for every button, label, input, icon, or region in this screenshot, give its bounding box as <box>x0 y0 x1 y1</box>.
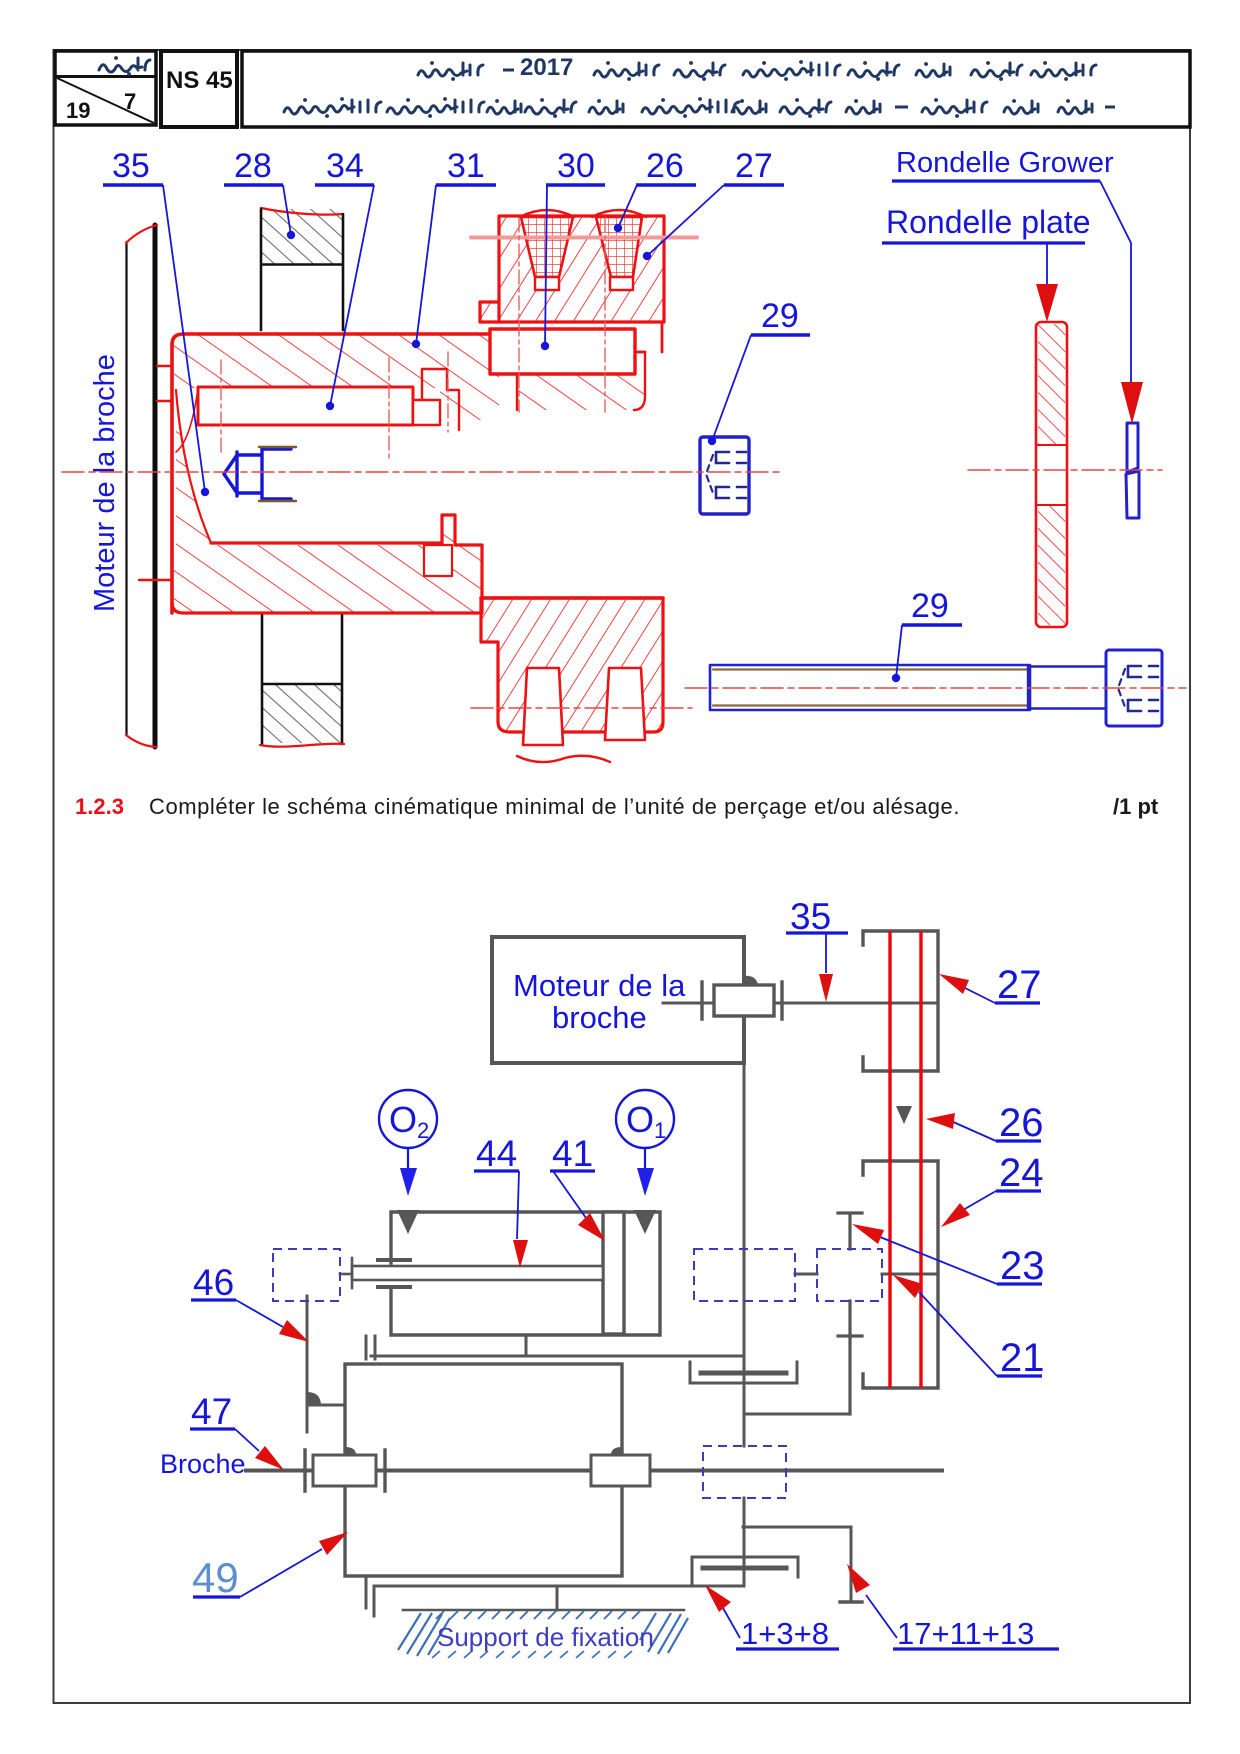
rondelle plate washer (red) <box>1036 322 1067 627</box>
svg-text:34: 34 <box>326 147 364 185</box>
svg-text:Moteur de la broche: Moteur de la broche <box>89 354 121 612</box>
pulley V-groove left (30 zone) <box>521 217 573 290</box>
label 24 schema <box>941 1151 1044 1227</box>
svg-text:1+3+8: 1+3+8 <box>741 1616 829 1651</box>
label 28 <box>224 147 295 239</box>
motor box <box>492 937 744 1063</box>
svg-text:31: 31 <box>447 147 485 185</box>
label 35 <box>103 147 209 496</box>
O2 circle <box>379 1090 437 1196</box>
label 30 <box>541 147 605 350</box>
ground support hatch <box>398 1611 688 1658</box>
svg-text:41: 41 <box>552 1133 593 1174</box>
connector between gear boxes <box>795 1273 817 1276</box>
svg-text:49: 49 <box>192 1554 239 1601</box>
part 28 belt lower section <box>260 615 344 747</box>
label 17+11+13 <box>847 1564 1059 1651</box>
belt lines (red) <box>890 931 921 1388</box>
svg-text:35: 35 <box>112 147 150 185</box>
label 46 <box>191 1262 309 1342</box>
page box (الصفحة) <box>55 51 156 125</box>
clutch fork upper <box>690 1362 797 1383</box>
question line 1.2.3 <box>75 794 124 820</box>
housing bell interior wall <box>176 388 211 545</box>
centerline main axis <box>62 471 780 473</box>
piston rod <box>340 1258 603 1288</box>
centerline washers <box>968 469 1162 471</box>
bearing right on broche <box>591 1455 650 1486</box>
gearbox housing 49 <box>345 1364 622 1576</box>
svg-text:46: 46 <box>193 1262 234 1303</box>
coupling bearing on motor shaft <box>702 982 782 1019</box>
svg-text:Rondelle Grower: Rondelle Grower <box>896 147 1114 179</box>
label 29 (long screw) <box>892 587 962 682</box>
arabic line 1 <box>418 54 1096 81</box>
label 26 <box>614 147 696 232</box>
pulley V-groove right (26 zone) <box>596 217 642 290</box>
belt pitch line (pale) <box>471 236 697 240</box>
svg-text:O: O <box>389 1099 417 1140</box>
cylinder 44 body <box>391 1212 660 1335</box>
broche shaft 47 <box>246 1469 942 1473</box>
label 29 (head) <box>708 297 810 445</box>
screw 29 head (side view) <box>700 437 749 514</box>
bearing left on broche <box>305 1450 385 1491</box>
svg-text:27: 27 <box>997 963 1042 1007</box>
label 49 <box>192 1532 348 1601</box>
pulley upper block 26/27 <box>480 210 664 322</box>
label 1+3+8 <box>705 1585 839 1651</box>
label Rondelle plate <box>882 204 1091 284</box>
svg-text:Moteur de la: Moteur de la <box>513 968 686 1003</box>
label 34 <box>315 147 374 410</box>
centerline bottom screw <box>685 687 1186 689</box>
label 26 schema <box>926 1101 1044 1145</box>
svg-text:24: 24 <box>999 1151 1044 1195</box>
hub band under bearing 30 <box>517 324 662 410</box>
arabic line 2 <box>284 99 1115 116</box>
label 47 <box>190 1391 284 1470</box>
housing 31 top band (hatched) <box>172 334 499 613</box>
svg-text:19: 19 <box>66 98 90 123</box>
svg-text:Rondelle plate: Rondelle plate <box>886 204 1091 240</box>
label 27 <box>643 147 784 260</box>
svg-text:35: 35 <box>790 896 831 937</box>
lower V-groove teeth <box>517 668 645 762</box>
screw 29 long (bottom) <box>710 650 1162 726</box>
motor flange (black) <box>126 225 172 747</box>
housing 31 bottom band (hatched) <box>171 515 482 613</box>
svg-text:29: 29 <box>911 587 949 625</box>
gear shaft 23 <box>744 1213 862 1414</box>
link rod from 46 <box>307 1296 345 1432</box>
pulley lower block <box>481 598 663 732</box>
svg-text:26: 26 <box>999 1101 1044 1145</box>
rondelle grower washer (blue) <box>1126 423 1139 518</box>
svg-text:17+11+13: 17+11+13 <box>897 1616 1034 1651</box>
gear engagement line 21 <box>882 1273 938 1276</box>
svg-text:23: 23 <box>1000 1244 1045 1288</box>
label 41 <box>550 1133 605 1241</box>
NS 45 box <box>161 51 237 127</box>
right vertical link 17+11+13 <box>743 1527 862 1602</box>
vertical transmission shaft <box>743 1063 746 1586</box>
dashed gear boxes <box>273 1249 882 1498</box>
svg-text:Support de fixation: Support de fixation <box>437 1622 654 1652</box>
label 27 schema <box>939 963 1042 1007</box>
svg-text:21: 21 <box>1000 1336 1045 1380</box>
svg-text:30: 30 <box>557 147 595 185</box>
bearing sleeve 34 <box>198 369 459 430</box>
pulley 24 (bottom) <box>863 1161 938 1388</box>
ground line <box>403 1609 684 1612</box>
svg-text:Broche: Broche <box>160 1449 246 1479</box>
svg-text:27: 27 <box>735 147 773 185</box>
filled pivot arcs <box>307 976 912 1455</box>
svg-text:47: 47 <box>191 1391 232 1432</box>
screw 35 (blue, center) <box>224 447 296 501</box>
ground stub <box>556 1586 559 1610</box>
pulley 27 (top) <box>863 931 938 1071</box>
lower frame line <box>366 1578 744 1616</box>
vertical centerlines <box>221 352 448 458</box>
svg-text:NS 45: NS 45 <box>166 67 233 94</box>
rondelle plate pointer arrow (red solid) <box>1036 284 1058 322</box>
svg-text:1: 1 <box>654 1118 666 1143</box>
svg-text:O: O <box>626 1099 654 1140</box>
svg-text:29: 29 <box>761 297 799 335</box>
svg-text:44: 44 <box>476 1133 517 1174</box>
part 28 belt upper section <box>261 208 343 330</box>
rondelle grower pointer arrow (red solid) <box>1121 382 1143 424</box>
clutch fork lower 1+3+8 <box>692 1557 798 1586</box>
label 21 schema <box>893 1275 1045 1380</box>
label 31 <box>412 147 496 348</box>
svg-text:28: 28 <box>234 147 272 185</box>
piston plate 41 <box>603 1212 624 1334</box>
cylinder lower stub <box>525 1335 528 1356</box>
centerline lower pulley <box>471 707 692 709</box>
svg-text:2: 2 <box>417 1118 429 1143</box>
O1 circle <box>616 1090 674 1196</box>
svg-text:2017: 2017 <box>520 54 573 81</box>
frame link line under cylinder <box>366 1336 744 1359</box>
bearing ring 30 <box>490 329 635 374</box>
svg-text:7: 7 <box>124 89 136 114</box>
main header box <box>242 51 1190 127</box>
svg-text:26: 26 <box>646 147 684 185</box>
motor shaft <box>663 1002 938 1005</box>
label Rondelle Grower <box>892 147 1131 382</box>
label 23 schema <box>852 1224 1045 1288</box>
label 35 schema <box>786 896 848 1002</box>
svg-text:broche: broche <box>552 1000 647 1035</box>
label 44 <box>474 1133 528 1268</box>
